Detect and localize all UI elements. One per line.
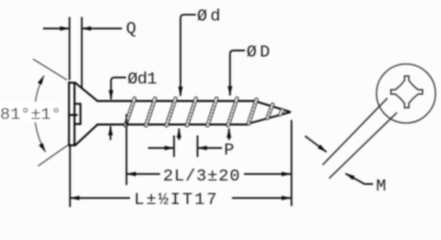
svg-text:2L/3±20: 2L/3±20 <box>163 168 241 187</box>
svg-text:ØD: ØD <box>247 44 273 63</box>
svg-text:Ød: Ød <box>197 8 223 27</box>
svg-text:Ød1: Ød1 <box>128 71 157 90</box>
svg-text:M: M <box>376 178 386 197</box>
svg-text:Q: Q <box>126 20 136 39</box>
svg-text:P: P <box>224 142 234 161</box>
svg-text:81°±1°: 81°±1° <box>0 106 61 125</box>
svg-text:L±½IT17: L±½IT17 <box>134 191 219 210</box>
